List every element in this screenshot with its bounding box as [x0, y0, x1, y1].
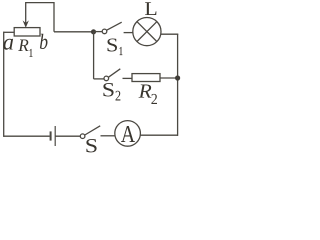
- label R2s: [151, 94, 157, 104]
- label L: [145, 2, 156, 15]
- wire top to node: [54, 31, 94, 33]
- rheostat R1: [14, 28, 40, 36]
- switch S2 blade: [109, 69, 121, 77]
- label a: [3, 39, 13, 50]
- label S1: [108, 39, 118, 52]
- switch S1 pivot: [102, 29, 107, 34]
- label S2: [103, 83, 113, 97]
- wire R1 left lead: [4, 31, 15, 33]
- switch S pivot: [80, 134, 85, 139]
- wire battery to switch S: [55, 135, 80, 137]
- wire lamp to right: [161, 33, 178, 35]
- label b: [40, 34, 48, 49]
- wire S2 to R2: [123, 77, 133, 79]
- switch S blade: [85, 126, 100, 135]
- ammeter A1 body: [115, 121, 141, 147]
- wire left side: [3, 32, 5, 137]
- label R1: [18, 40, 28, 52]
- lamp L cross: [137, 22, 157, 42]
- wire ammeter to right: [140, 134, 178, 136]
- resistor R2 body: [132, 74, 160, 82]
- lamp L body: [133, 18, 161, 46]
- label S1s: [120, 47, 123, 55]
- battery positive plate: [54, 126, 56, 146]
- wire R2 to right: [160, 77, 178, 79]
- node junction top: [91, 29, 96, 34]
- switch S2 pivot: [104, 76, 109, 81]
- label R1s: [30, 49, 33, 57]
- wire node to S1: [94, 31, 103, 33]
- label A: [121, 126, 135, 142]
- switch S1 blade: [107, 22, 122, 30]
- wire right side: [177, 34, 179, 136]
- wire node branch down: [93, 32, 95, 79]
- label R2: [139, 85, 152, 98]
- wire S1 to lamp: [124, 32, 134, 34]
- node right junction: [175, 75, 180, 80]
- wire wiper riser: [26, 3, 54, 32]
- label S2s: [116, 91, 121, 101]
- label S: [86, 139, 96, 152]
- wire switch S to ammeter: [101, 135, 115, 137]
- battery negative plate: [50, 131, 52, 140]
- wiper arrow: [23, 20, 29, 28]
- wire branch to S2: [94, 78, 104, 80]
- wire bottom left: [4, 135, 50, 137]
